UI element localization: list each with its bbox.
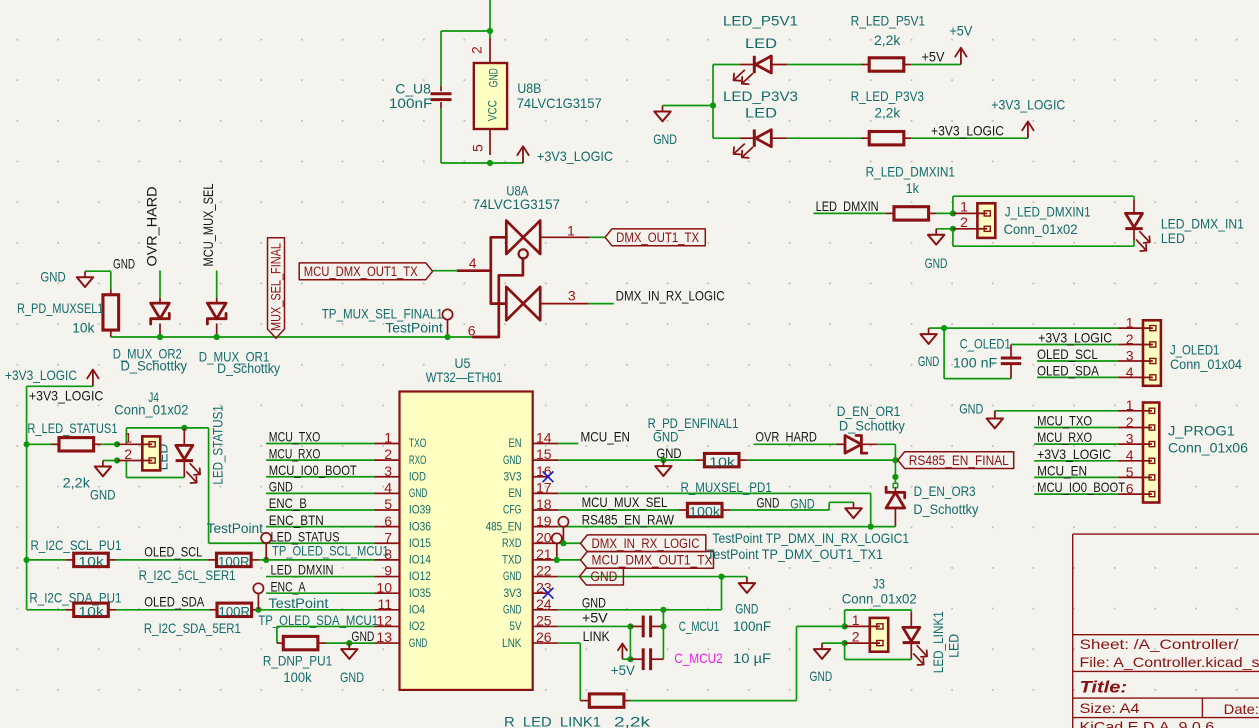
svg-text:MCU_EN: MCU_EN: [1037, 462, 1087, 478]
svg-text:EN: EN: [509, 486, 522, 500]
wire +3V3 rail to R_LED_STATUS1: [26, 444, 28, 447]
wire MCU_DMX_OUT1_TX to U8A pin4: [433, 270, 458, 272]
svg-text:22: 22: [536, 563, 552, 579]
svg-text:100 nF: 100 nF: [953, 354, 997, 370]
svg-text:MCU_RXO: MCU_RXO: [269, 445, 321, 461]
svg-text:R_I2C_SDA_5ER1: R_I2C_SDA_5ER1: [144, 620, 241, 636]
svg-text:Title:: Title:: [1080, 678, 1128, 697]
svg-text:10k: 10k: [78, 605, 104, 619]
svg-text:11: 11: [377, 596, 392, 612]
resistor R_LED_P5V1: [869, 58, 904, 71]
wire pin15 to R_PD_ENFINAL1: [558, 459, 695, 461]
LED LED_STATUS1: [176, 445, 193, 459]
svg-text:26: 26: [536, 629, 552, 645]
wire R_LED_STATUS1 to J4 pin1: [101, 443, 117, 445]
svg-text:100k: 100k: [283, 669, 312, 685]
resistor R_PD_ENFINAL1: [704, 453, 739, 466]
svg-text:485_EN: 485_EN: [486, 519, 522, 533]
resistor R_I2C_SDA_SER1 100R: [217, 603, 252, 616]
wire EN pin17: [558, 492, 870, 494]
svg-text:IO39: IO39: [409, 503, 431, 517]
svg-text:GND: GND: [487, 68, 501, 87]
svg-text:WT32—ETH01: WT32—ETH01: [426, 369, 503, 385]
wire GND to R_PD_MUXSEL1: [85, 270, 111, 272]
svg-text:MCU_TXO: MCU_TXO: [269, 429, 321, 445]
svg-text:CFG: CFG: [503, 503, 522, 517]
svg-text:R_LED_P3V3: R_LED_P3V3: [851, 88, 925, 104]
resistor R_LED_DMXIN1: [894, 207, 929, 220]
power +3V3_LOGIC left: [92, 370, 94, 387]
svg-text:GND: GND: [757, 495, 780, 511]
wire to LED_P3V3: [713, 137, 740, 139]
svg-text:EN: EN: [509, 436, 522, 450]
svg-text:RS485_EN_FINAL: RS485_EN_FINAL: [909, 453, 1009, 468]
svg-text:TestPoint TP_DMX_OUT1_TX1: TestPoint TP_DMX_OUT1_TX1: [707, 546, 883, 562]
svg-text:DMX_OUT1_TX: DMX_OUT1_TX: [616, 230, 699, 245]
wire LED_P3V3 to R_LED_P3V3: [787, 137, 861, 139]
wire stub to D_EN_OR3: [894, 477, 896, 483]
svg-text:2: 2: [469, 46, 485, 54]
global label RS485_EN_FINAL: [898, 452, 1014, 469]
wire MUX_SEL_FINAL bus: [111, 336, 474, 338]
svg-text:GND: GND: [351, 628, 374, 644]
svg-text:4: 4: [1126, 447, 1134, 463]
svg-text:Conn_01x02: Conn_01x02: [1004, 221, 1078, 237]
svg-text:Conn_01x04: Conn_01x04: [1170, 356, 1242, 372]
svg-text:LED_P5V1: LED_P5V1: [723, 13, 798, 29]
wire D_EN_OR1 to junction: [877, 443, 895, 445]
resistor R_LED_LINK1: [589, 694, 624, 707]
wire LED_DMX_IN1 bottom rail: [1133, 240, 1135, 246]
global label GND pin22: [579, 568, 623, 585]
svg-text:25: 25: [536, 613, 552, 629]
svg-text:U8B: U8B: [517, 80, 541, 96]
LED LED_DMX_IN1: [1126, 213, 1143, 227]
svg-text:Size: A4: Size: A4: [1080, 700, 1140, 716]
wire R_DNP_PU1 to U5 pin13: [326, 642, 375, 644]
svg-text:DMX_IN_RX_LOGIC: DMX_IN_RX_LOGIC: [616, 288, 725, 304]
svg-text:TXO: TXO: [409, 436, 427, 450]
svg-text:100nF: 100nF: [389, 95, 433, 111]
junction pin19 pin17: [868, 524, 874, 530]
svg-text:R_I2C_5CL_SER1: R_I2C_5CL_SER1: [139, 567, 236, 583]
svg-text:2: 2: [124, 446, 132, 462]
svg-text:LED_P3V3: LED_P3V3: [723, 88, 798, 104]
svg-text:MCU_MUX_SEL: MCU_MUX_SEL: [200, 183, 216, 266]
wire LED_P5V1 to R_LED_P5V1: [787, 64, 861, 66]
wire LED_DMXIN pin9: [266, 576, 374, 578]
svg-text:OVR_HARD: OVR_HARD: [144, 187, 160, 267]
svg-text:2,2k: 2,2k: [614, 713, 651, 728]
wires and local labels U5 pins 1-6: [266, 443, 374, 445]
svg-text:+3V3_LOGIC: +3V3_LOGIC: [5, 367, 77, 383]
wire to LED_P5V1: [713, 64, 740, 66]
ground symbol pin18: [853, 502, 855, 508]
svg-text:GND: GND: [656, 445, 681, 461]
svg-text:C_MCU1: C_MCU1: [679, 618, 720, 634]
svg-text:GND: GND: [735, 601, 758, 617]
wire RS485_EN_FINAL to D_EN_OR3: [894, 460, 896, 477]
svg-text:LED_DMXIN: LED_DMXIN: [816, 198, 879, 214]
global label MCU_DMX_OUT1_TX pin21: [581, 552, 714, 569]
svg-text:1k: 1k: [906, 180, 920, 196]
svg-text:GND: GND: [918, 353, 939, 369]
junction J4 pin2: [114, 457, 120, 463]
wires and local labels J_PROG1 pins 2-6: [1034, 427, 1118, 429]
junction pin24 caps: [660, 607, 666, 613]
svg-text:2,2k: 2,2k: [63, 475, 91, 491]
test point TP_OLED_SDA_MCU1: [253, 583, 263, 593]
svg-text:10: 10: [376, 579, 392, 595]
svg-text:3V3: 3V3: [504, 586, 522, 600]
svg-text:14: 14: [536, 430, 552, 446]
svg-text:1: 1: [1126, 397, 1134, 413]
svg-text:File: A_Controller.kicad_s: File: A_Controller.kicad_s: [1080, 654, 1259, 670]
svg-text:R_MUXSEL_PD1: R_MUXSEL_PD1: [681, 479, 772, 495]
svg-text:RXD: RXD: [502, 536, 522, 550]
svg-text:2: 2: [1126, 414, 1134, 430]
svg-text:LED_STATUS1: LED_STATUS1: [210, 405, 226, 485]
svg-text:IO12: IO12: [409, 569, 431, 583]
wire J_LED_DMXIN1 pin2 to GND: [936, 228, 953, 230]
svg-text:DMX_IN_RX_LOGIC: DMX_IN_RX_LOGIC: [592, 536, 700, 551]
wire rail to R_I2C_SCL_PU1: [27, 559, 66, 561]
svg-text:IO14: IO14: [409, 553, 431, 567]
wire +3V3 rail: [27, 385, 93, 387]
power +5V bottom: [621, 644, 623, 660]
svg-text:MCU_IO0_BOOT: MCU_IO0_BOOT: [1037, 479, 1125, 495]
svg-text:5: 5: [1126, 464, 1134, 480]
wire R_LED_P3V3 to +3V3_LOGIC: [911, 137, 1028, 139]
diode D_EN_OR1 D_Schottky: [845, 436, 861, 454]
svg-text:+5V: +5V: [582, 609, 608, 625]
junction D_MUX_OR2 anode: [157, 334, 163, 340]
junction TP_MUX_SEL_FINAL1: [444, 334, 450, 340]
svg-text:6: 6: [1126, 481, 1134, 497]
wire LED_LINK1 bottom rail: [845, 659, 912, 661]
test point TP_DMX_OUT1_TX1: [552, 533, 562, 543]
wire J4 pin2 to GND: [103, 460, 117, 462]
svg-text:6: 6: [468, 323, 476, 339]
svg-text:R_I2C_SCL_PU1: R_I2C_SCL_PU1: [31, 537, 122, 553]
svg-text:VCC: VCC: [486, 100, 500, 121]
junction J_LED_DMXIN1 pin2: [950, 226, 956, 232]
svg-text:GND: GND: [810, 668, 833, 684]
no-connect U5 pin 16: [543, 471, 554, 482]
junction LED_STATUS1 anode: [181, 425, 187, 431]
global label MCU_DMX_OUT1_TX input: [299, 263, 432, 280]
resistor R_LED_P3V3: [869, 132, 904, 145]
wire OVR_HARD to D_MUX_OR2: [159, 271, 161, 298]
resistor R_DNP_PU1: [283, 636, 318, 649]
junction J3 pin2: [842, 640, 848, 646]
resistor R_LED_STATUS1: [59, 438, 94, 451]
wire caps gnd riser: [662, 610, 664, 659]
junction J_OLED1 gnd: [941, 325, 947, 331]
svg-text:+5V: +5V: [922, 49, 946, 65]
junction below RS485_EN_FINAL: [892, 474, 898, 480]
power +3V3_LOGIC at U8B: [522, 146, 524, 163]
svg-text:R_DNP_PU1: R_DNP_PU1: [263, 652, 332, 668]
svg-text:9: 9: [384, 563, 392, 579]
resistor R_MUXSEL_PD1 100k: [687, 503, 722, 516]
wire J3 pin2 to GND: [822, 642, 845, 644]
svg-text:GND: GND: [653, 131, 677, 147]
svg-text:IO35: IO35: [409, 586, 431, 600]
svg-text:MCU_MUX_SEL: MCU_MUX_SEL: [582, 494, 668, 510]
wire OLED_SDA: [116, 609, 209, 611]
svg-text:1: 1: [960, 199, 968, 215]
svg-text:RXO: RXO: [409, 453, 427, 467]
junction J4 pin1: [114, 441, 120, 447]
junction rail at R_I2C_SCL_PU1: [24, 557, 30, 563]
analog switch U8A 74LVC1G3157: [506, 221, 523, 254]
global label MUX_SEL_FINAL (vertical): [268, 238, 285, 338]
svg-text:IO36: IO36: [409, 519, 431, 533]
wire J_OLED1 pin1 to GND: [944, 327, 1118, 329]
svg-text:19: 19: [536, 513, 552, 529]
svg-text:5V: 5V: [510, 619, 522, 633]
svg-text:Conn_01x02: Conn_01x02: [114, 402, 188, 418]
junction pin15 GND: [660, 457, 666, 463]
wire MCU_MUX_SEL to D_MUX_OR1: [216, 271, 218, 298]
svg-text:10k: 10k: [78, 555, 104, 569]
wire OLED_SDA pin4: [1037, 376, 1118, 378]
svg-text:+3V3_LOGIC: +3V3_LOGIC: [991, 97, 1065, 113]
svg-text:4: 4: [1126, 364, 1134, 380]
junction RS485_EN_FINAL: [892, 457, 898, 463]
op-amp U8B 74LVC1G3157 power body: [474, 63, 507, 129]
svg-text:GND: GND: [503, 603, 522, 617]
junction J_LED_DMXIN1 pin1: [950, 210, 956, 216]
svg-text:MCU_RXO: MCU_RXO: [1037, 429, 1092, 445]
wire R_LED_LINK1 to J3: [630, 700, 797, 702]
capacitor C_MCU2: [642, 648, 645, 670]
svg-text:IOD: IOD: [409, 469, 426, 483]
test point TP_DMX_IN_RX_LOGIC1: [558, 517, 568, 527]
junction power LED branch: [710, 102, 716, 108]
svg-text:LED: LED: [745, 105, 777, 121]
ground symbol J_OLED1: [928, 328, 930, 334]
svg-text:J3: J3: [873, 575, 885, 591]
svg-text:J_LED_DMXIN1: J_LED_DMXIN1: [1005, 203, 1091, 219]
ground symbol mux select: [84, 271, 86, 277]
connector J_LED_DMXIN1: [977, 203, 995, 238]
svg-text:R_PD_MUXSEL1: R_PD_MUXSEL1: [17, 300, 104, 316]
wire 100R to U5 pin8: [259, 559, 375, 561]
svg-text:74LVC1G3157: 74LVC1G3157: [517, 95, 602, 111]
svg-text:GND: GND: [790, 495, 815, 511]
junction rail at R_LED_STATUS1: [24, 441, 30, 447]
svg-text:18: 18: [536, 496, 552, 512]
svg-text:5: 5: [470, 144, 486, 152]
diode D_EN_OR3 D_Schottky: [886, 492, 905, 508]
junction U8B pin5: [487, 160, 493, 166]
svg-text:LED: LED: [946, 634, 961, 658]
wire rail to R_LED_STATUS1: [27, 443, 51, 445]
svg-text:OLED_SDA: OLED_SDA: [144, 593, 205, 609]
svg-text:GND: GND: [582, 595, 606, 611]
svg-text:2,2k: 2,2k: [875, 105, 902, 121]
svg-text:100nF: 100nF: [733, 618, 771, 634]
wire MCU_MUX_SEL pin18: [558, 509, 679, 511]
svg-text:R_LED_LINK1: R_LED_LINK1: [504, 713, 601, 728]
svg-text:OLED_SDA: OLED_SDA: [1037, 363, 1099, 379]
svg-text:2: 2: [1126, 331, 1134, 347]
diode D_MUX_OR2 D_Schottky: [151, 303, 170, 319]
svg-text:GND: GND: [503, 569, 522, 583]
svg-text:R_LED_DMXIN1: R_LED_DMXIN1: [866, 164, 956, 180]
junction pin25 C_MCU1: [627, 623, 633, 629]
capacitor C_MCU1: [642, 616, 645, 638]
wire GND to LED junction: [663, 105, 714, 107]
svg-text:TP_OLED_SCL_MCU1: TP_OLED_SCL_MCU1: [272, 543, 389, 559]
wire U8B pin5 to +3V3_LOGIC: [490, 162, 523, 164]
svg-text:GND: GND: [90, 486, 116, 502]
svg-text:1: 1: [852, 612, 860, 628]
svg-text:TP_OLED_SDA_MCU1: TP_OLED_SDA_MCU1: [258, 612, 378, 628]
svg-text:21: 21: [536, 546, 552, 562]
wire pin20 to label: [558, 542, 580, 544]
junction pin20 test point: [560, 540, 566, 546]
wire C_U8 bottom branch: [440, 108, 442, 163]
junction TP_OLED_SDA_MCU1: [255, 607, 261, 613]
svg-text:Conn_01x06: Conn_01x06: [1168, 440, 1248, 456]
svg-text:15: 15: [536, 446, 552, 462]
wire LED_LINK1 top rail: [844, 610, 846, 626]
wire pin22 to pin24 rail: [721, 577, 723, 610]
LED LED_LINK1: [903, 627, 920, 641]
junction D_MUX_OR1 anode: [214, 334, 220, 340]
svg-text:GND: GND: [340, 669, 364, 685]
svg-text:D_Schottky: D_Schottky: [839, 417, 905, 433]
svg-text:MCU_IO0_BOOT: MCU_IO0_BOOT: [269, 462, 357, 478]
resistor R_I2C_SDA_PU1: [74, 603, 109, 616]
IC U5 WT32-ETH01 body: [400, 392, 533, 690]
svg-text:+3V3_LOGIC: +3V3_LOGIC: [931, 122, 1004, 138]
power +5V top right: [960, 48, 962, 65]
ground symbol J_LED_DMXIN1: [935, 229, 937, 235]
svg-text:5: 5: [384, 496, 392, 512]
svg-text:OLED_SCL: OLED_SCL: [1037, 346, 1098, 362]
resistor R_PD_MUXSEL1: [103, 295, 119, 330]
svg-text:ENC_B: ENC_B: [269, 495, 307, 511]
svg-text:D_EN_OR3: D_EN_OR3: [914, 483, 976, 499]
svg-text:10k: 10k: [72, 320, 95, 336]
test point TP_OLED_SCL_MCU1: [261, 533, 271, 543]
wire OLED_SCL pin3: [1037, 360, 1118, 362]
svg-text:1: 1: [567, 222, 575, 238]
svg-text:C_OLED1: C_OLED1: [960, 335, 1011, 351]
test point TP_MUX_SEL_FINAL1: [442, 309, 452, 319]
svg-text:3: 3: [1126, 347, 1134, 363]
wire LINK pin26: [558, 642, 580, 644]
svg-text:MCU_DMX_OUT1_TX: MCU_DMX_OUT1_TX: [304, 264, 418, 279]
svg-text:LED_DMXIN: LED_DMXIN: [271, 562, 334, 578]
capacitor C_OLED1: [1001, 356, 1021, 359]
svg-text:GND: GND: [269, 479, 293, 495]
junction pin22 GND: [718, 573, 724, 579]
wire R_LED_P5V1 to +5V: [911, 64, 961, 66]
svg-text:Date:: Date:: [1224, 701, 1259, 717]
wire OLED_SCL: [116, 559, 208, 561]
svg-text:R_LED_P5V1: R_LED_P5V1: [851, 13, 926, 29]
svg-text:3: 3: [568, 287, 576, 303]
svg-text:3: 3: [384, 463, 392, 479]
global label DMX_IN_RX_LOGIC pin20: [581, 535, 706, 552]
junction R_DNP_PU1 GND: [346, 640, 352, 646]
wire R_PD_ENFINAL1 to RS485_EN_FINAL: [747, 459, 895, 461]
wire RS485_EN_RAW pin19: [558, 526, 895, 528]
ground symbol R_DNP_PU1: [348, 643, 350, 649]
svg-text:74LVC1G3157: 74LVC1G3157: [473, 196, 561, 212]
svg-text:MCU_EN: MCU_EN: [581, 429, 631, 445]
wire GND pin24: [558, 609, 721, 611]
wire LED_STATUS1 top rail: [125, 428, 127, 444]
wire LED_DMXIN to R_LED_DMXIN1: [814, 212, 887, 214]
wire 100k to GND: [730, 509, 829, 511]
svg-text:LED: LED: [745, 35, 777, 51]
connector J_PROG1: [1143, 403, 1159, 503]
svg-text:13: 13: [376, 629, 392, 645]
svg-text:Conn_01x02: Conn_01x02: [842, 591, 917, 607]
no-connect U5 pin 23: [543, 588, 554, 599]
junction TP_OLED_SCL_MCU1: [263, 557, 269, 563]
diode D_MUX_OR1 D_Schottky: [207, 303, 226, 319]
junction C_MCU1 right: [660, 623, 666, 629]
svg-text:4: 4: [469, 255, 477, 271]
wire LED branch vertical: [712, 65, 714, 139]
svg-text:+3V3_LOGIC: +3V3_LOGIC: [1037, 446, 1111, 462]
resistor R_I2C_SCL_PU1: [74, 553, 109, 566]
svg-text:J_PROG1: J_PROG1: [1168, 423, 1235, 439]
wire 100R to U5 pin11: [258, 609, 374, 611]
svg-text:GND: GND: [409, 636, 428, 650]
svg-text:GND: GND: [925, 255, 948, 271]
wire R_LED_DMXIN1 to J_LED_DMXIN1 pin1: [936, 212, 953, 214]
svg-text:+3V3_LOGIC: +3V3_LOGIC: [537, 148, 613, 164]
svg-text:GND: GND: [40, 269, 65, 285]
wire C_OLED1 bottom return: [943, 328, 945, 379]
svg-text:+5V: +5V: [611, 662, 636, 678]
junction J3 pin1: [842, 623, 848, 629]
resistor R_I2C_SCL_SER1 100R: [217, 553, 252, 566]
wire J_PROG1 pin1 GND: [995, 410, 1119, 412]
svg-text:C_MCU2: C_MCU2: [674, 650, 723, 666]
svg-text:10 µF: 10 µF: [733, 650, 771, 666]
junction at C_U8 tap: [487, 28, 493, 34]
ground symbol J_PROG1: [994, 411, 996, 419]
wire +5V to C_MCU2: [629, 626, 631, 659]
svg-text:GND: GND: [409, 486, 428, 500]
wire +3V3_LOGIC pin2: [1011, 344, 1118, 346]
LED LED_P5V1: [753, 56, 756, 73]
svg-text:LED_LINK1: LED_LINK1: [930, 611, 946, 673]
svg-text:3: 3: [1126, 431, 1134, 447]
wire OVR_HARD to D_EN_OR1: [754, 443, 837, 445]
capacitor C_U8: [431, 92, 452, 95]
global label DMX_OUT1_TX: [605, 229, 705, 246]
svg-text:GND: GND: [959, 401, 983, 417]
LED LED_P3V3: [753, 130, 756, 147]
svg-text:2: 2: [852, 629, 860, 645]
wire gnd stub oled: [929, 327, 945, 329]
wire U8A pin1 to DMX_OUT1_TX: [590, 236, 605, 238]
wire rail corner to R_I2C_SDA_PU1: [27, 609, 66, 611]
svg-text:R_LED_STATUS1: R_LED_STATUS1: [27, 420, 117, 436]
junction pin21 test point: [554, 557, 560, 563]
svg-text:100k: 100k: [689, 505, 721, 519]
